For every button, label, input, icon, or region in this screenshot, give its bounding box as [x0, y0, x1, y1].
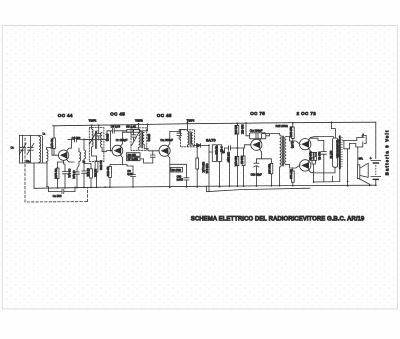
wire bottom ground rail: [34, 185, 376, 188]
electrolytic capacitor C15: [246, 123, 269, 139]
svg-text:C16 25μF: C16 25μF: [251, 173, 263, 176]
wire Q4 base lead: [237, 145, 250, 148]
wire Q3 collector riser: [170, 130, 186, 144]
wire tone cap drop: [229, 153, 231, 187]
svg-text:OC 44: OC 44: [58, 113, 73, 118]
transistor Q4 OC75: [251, 138, 262, 152]
svg-text:C6 0,01: C6 0,01: [86, 168, 89, 177]
svg-text:C11 300pF: C11 300pF: [160, 138, 173, 142]
speaker SP: [357, 157, 369, 186]
svg-text:SCHEMA ELETTRICO DEL RADIORICE: SCHEMA ELETTRICO DEL RADIORICEVITORE G.B…: [191, 215, 365, 222]
resistor R4a bias: [95, 156, 102, 187]
transformer TMF3: [177, 118, 195, 146]
svg-text:R10 2,2K: R10 2,2K: [202, 162, 205, 173]
svg-text:2 OC 72: 2 OC 72: [297, 111, 317, 116]
inductor L1 ferrite antenna: [39, 132, 46, 163]
svg-text:R19 5Ω: R19 5Ω: [318, 152, 321, 160]
resistor R13 emitter: [262, 159, 273, 186]
resistor R18 emitter upper: [308, 151, 313, 160]
resistor R17 bias lower: [289, 168, 294, 186]
capacitor C2 loop below rail: [49, 187, 63, 192]
wire Q4 emitter: [256, 152, 261, 159]
transistor Q1 OC44: [58, 148, 69, 162]
wire OC44 base lead: [52, 148, 58, 156]
svg-text:C2 500: C2 500: [53, 194, 62, 198]
svg-text:C14 10μF: C14 10μF: [226, 152, 229, 163]
svg-text:J: J: [362, 133, 364, 137]
svg-text:R8 4700: R8 4700: [106, 167, 109, 177]
transistor Q6 OC72: [300, 159, 311, 172]
wire AGC drop to Q2 base: [110, 131, 112, 151]
capacitor C12 emitter: [177, 164, 189, 187]
dashed antenna enclosure: [25, 138, 88, 202]
wire Q2 emitter network: [122, 157, 127, 164]
wire top supply rail: [53, 122, 377, 126]
diode D1 OA79: [193, 138, 216, 147]
capacitor C5: [72, 165, 79, 188]
node junction C4 output: [83, 139, 85, 141]
svg-text:R9 4700: R9 4700: [171, 169, 181, 172]
svg-text:R13 100: R13 100: [268, 164, 271, 174]
wire second bottom rail: [207, 186, 311, 191]
variable capacitor C1a: [26, 135, 34, 163]
wire TMF1 secondary to Q2 base: [102, 151, 112, 152]
wire T2 secondary return: [314, 168, 340, 182]
svg-text:0,02: 0,02: [127, 173, 132, 176]
resistor R9: [171, 167, 183, 172]
transformer TMF1: [89, 118, 104, 161]
svg-text:R13 1K: R13 1K: [240, 156, 243, 164]
potentiometer P1 volume: [209, 145, 225, 192]
resistor R16 bias upper: [289, 123, 294, 141]
svg-text:R2 0,1M: R2 0,1M: [54, 169, 58, 179]
svg-text:R1 4,7K: R1 4,7K: [50, 139, 54, 149]
transistor Q2 OC45: [112, 144, 123, 158]
wire battery feed to T2 center: [331, 122, 335, 138]
transformer TMF2: [131, 118, 150, 150]
svg-text:R15 270Ω: R15 270Ω: [276, 124, 288, 128]
capacitor C14 coupling: [225, 146, 238, 163]
transistor Q3 OC45: [159, 144, 170, 158]
svg-text:OC 45: OC 45: [110, 111, 125, 116]
jack J: [344, 133, 366, 164]
svg-text:C8 0,04: C8 0,04: [111, 124, 121, 128]
wire TMF1 primary return: [92, 151, 97, 156]
capacitor C10 base: [147, 151, 155, 163]
wire Q4 collector to T1: [262, 134, 280, 138]
svg-text:C4 500: C4 500: [72, 136, 81, 140]
node junction rail dots left: [57, 187, 92, 189]
svg-text:(1,2K): (1,2K): [290, 142, 293, 149]
svg-text:P 5K: P 5K: [220, 147, 223, 153]
svg-text:R11 10K: R11 10K: [234, 125, 237, 135]
resistor R5 AGC: [126, 124, 147, 132]
electrolytic capacitor C17: [321, 140, 332, 179]
wire jack ground drop: [347, 149, 349, 186]
capacitor C6: [82, 164, 89, 188]
capacitor C9: [127, 165, 136, 187]
resistor R12 bias lower: [234, 148, 239, 186]
resistor R7: [127, 157, 147, 163]
capacitor C3: [62, 164, 71, 188]
svg-text:C17 50: C17 50: [329, 151, 332, 159]
wire T1 secondary to bases crossover: [286, 137, 300, 168]
svg-text:SP.: SP.: [359, 157, 363, 161]
node junction TMF1 top: [91, 124, 93, 126]
inductor L2 coupling winding: [47, 148, 53, 164]
svg-text:C15 200μF: C15 200μF: [250, 129, 263, 133]
svg-text:+: +: [370, 156, 372, 160]
resistor R8 emitter: [106, 165, 111, 188]
resistor R1: [50, 126, 55, 156]
transformer T1 driver: [276, 124, 294, 186]
svg-text:R12 6,8K: R12 6,8K: [234, 156, 237, 166]
wire tuning block frame: [20, 134, 42, 136]
svg-text:0,005: 0,005: [177, 178, 184, 181]
svg-text:R7 0,15K: R7 0,15K: [128, 158, 139, 161]
resistor R2: [54, 162, 59, 188]
capacitor C8 AGC: [84, 124, 127, 139]
svg-text:Cp 0,02: Cp 0,02: [214, 146, 217, 155]
capacitor C4: [68, 136, 91, 142]
transistor Q5 OC72: [300, 138, 311, 151]
svg-text:R4 4700: R4 4700: [99, 160, 102, 170]
transformer T2 output: [333, 136, 343, 168]
inductor L3 oscillator winding: [69, 139, 86, 165]
wire T2 secondary to jack: [343, 140, 344, 142]
resistor R6: [127, 153, 140, 157]
resistor R19 emitter lower: [310, 152, 320, 182]
wire Q6 collector to T2 bottom: [310, 167, 335, 173]
pot wiper arrow: [222, 150, 225, 153]
svg-text:OC 75: OC 75: [250, 111, 265, 116]
resistor R11: [234, 123, 243, 148]
svg-text:R12 47K: R12 47K: [240, 125, 243, 135]
svg-text:R6 15K: R6 15K: [128, 154, 137, 157]
svg-text:C5 0,01: C5 0,01: [72, 170, 75, 179]
wire OC44 collector riser: [68, 139, 71, 148]
svg-text:C3 0,01: C3 0,01: [68, 169, 72, 179]
svg-text:OC 45: OC 45: [157, 113, 172, 118]
svg-text:L3: L3: [83, 160, 85, 163]
wire Q2 collector riser: [122, 129, 138, 143]
resistor R3: [84, 164, 97, 188]
resistor R14 bias pair: [240, 148, 245, 186]
resistor R10 detector load: [196, 145, 208, 187]
battery BT1 9V: [370, 122, 381, 186]
svg-text:(600Ω): (600Ω): [147, 134, 150, 142]
wire Q3 emitter box: [170, 158, 187, 187]
electrolytic capacitor C16: [251, 159, 263, 186]
wire TMF2 secondary to Q3 base: [144, 148, 159, 150]
wire L2 return to ground: [46, 163, 48, 187]
svg-text:R17 100: R17 100: [289, 169, 292, 179]
wire Q5 collector to T2 top: [310, 137, 333, 138]
svg-text:C13 0,01: C13 0,01: [205, 163, 208, 174]
wire detector output drop: [208, 145, 210, 162]
svg-text:0A79: 0A79: [206, 138, 216, 142]
wire OC44 emitter drop: [64, 160, 65, 164]
svg-text:C7 200μF: C7 200μF: [116, 138, 128, 142]
variable capacitor C1: [11, 135, 27, 163]
